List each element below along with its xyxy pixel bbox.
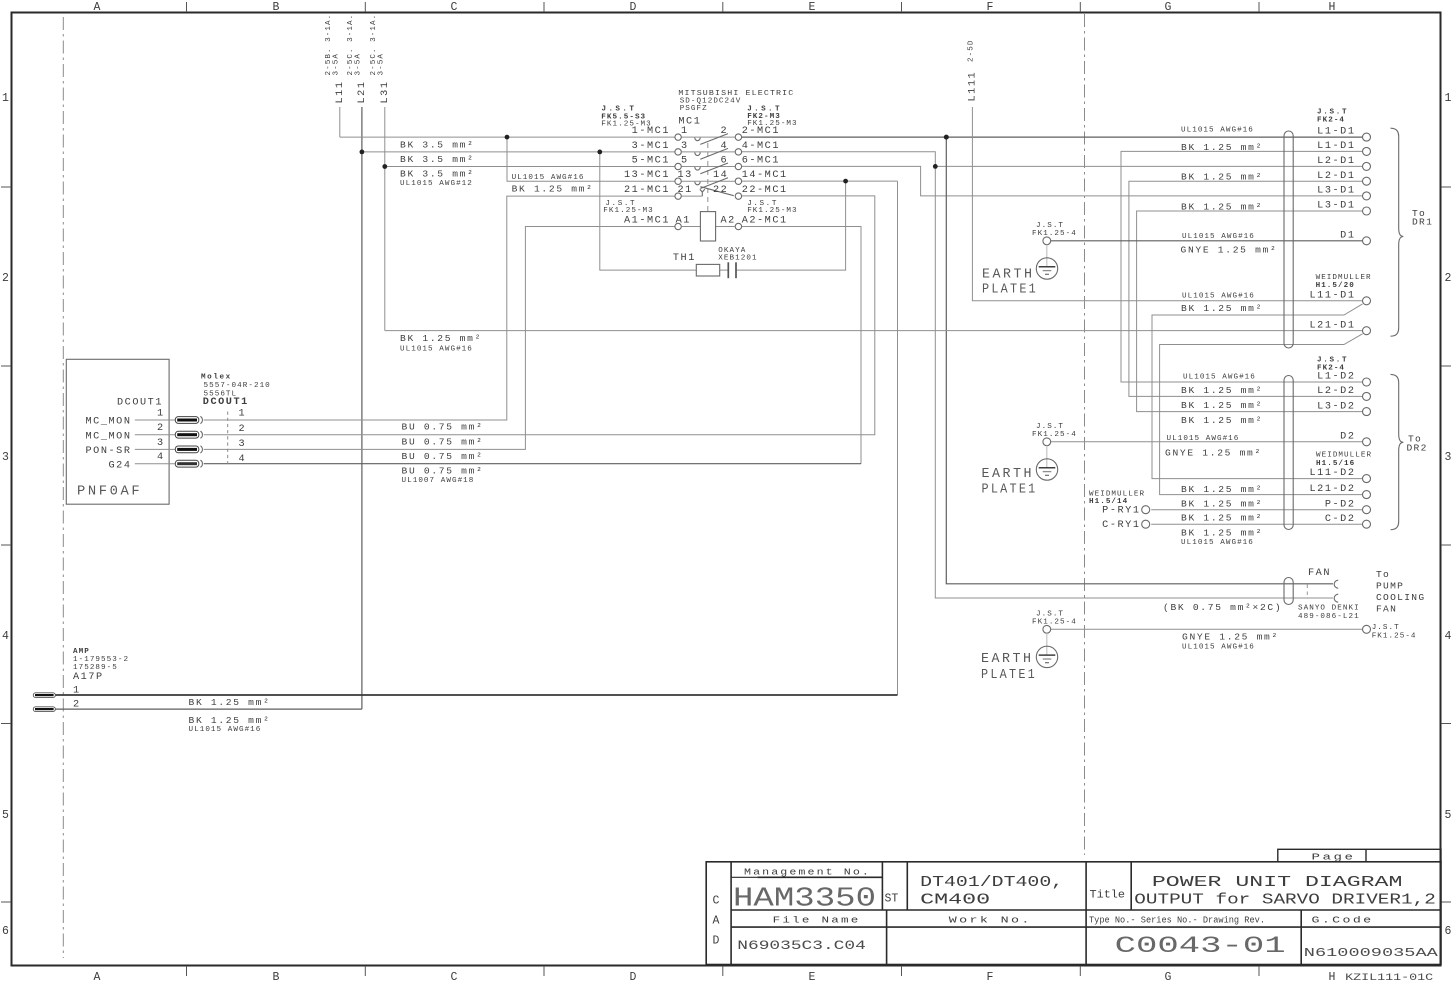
contactor MC1 aux NC 21-22 contact circles xyxy=(675,193,681,199)
svg-text:HAM3350: HAM3350 xyxy=(733,885,876,915)
earth plate1 terminal circle xyxy=(1043,237,1051,245)
svg-text:UL1015 AWG#16: UL1015 AWG#16 xyxy=(189,726,262,734)
svg-text:EARTH: EARTH xyxy=(982,467,1035,482)
earth plate3 name xyxy=(981,652,1037,683)
svg-text:PUMP: PUMP xyxy=(1376,580,1404,591)
contactor MC1 pole 1-2 fixed hook xyxy=(695,138,700,141)
wire 21-MC1 feed and MC_MON pin1 riser xyxy=(204,196,675,420)
terminal FK1.25-4 fan ground xyxy=(1363,625,1371,633)
svg-text:BK 3.5 mm²: BK 3.5 mm² xyxy=(400,140,475,151)
svg-text:BK 1.25 mm²: BK 1.25 mm² xyxy=(1181,303,1263,314)
svg-text:BK 1.25 mm²: BK 1.25 mm² xyxy=(1181,385,1263,396)
svg-text:J.S.T: J.S.T xyxy=(1317,357,1348,365)
wire label GNYE fan ground xyxy=(1182,632,1279,652)
svg-text:5: 5 xyxy=(2,809,9,822)
svg-text:21: 21 xyxy=(678,185,693,196)
terminal brand label coil right xyxy=(747,200,797,215)
wire phase1 BK3.5 to contact 1-MC1 xyxy=(340,136,675,138)
svg-text:File Name: File Name xyxy=(773,914,861,925)
svg-text:UL1015 AWG#16: UL1015 AWG#16 xyxy=(1182,293,1255,301)
svg-text:14-MC1: 14-MC1 xyxy=(742,170,788,181)
wire coil A2 to DCOUT1 pin4 xyxy=(742,227,862,464)
wire coil A1 to DCOUT1 pin3 xyxy=(204,227,675,450)
svg-text:L3-D2: L3-D2 xyxy=(1317,401,1355,412)
capacitor of TH1 snubber xyxy=(727,262,729,278)
thermistor TH1 body xyxy=(696,264,719,276)
contactor MC1 pole 5-6 fixed hook xyxy=(695,167,700,170)
svg-text:L1-D1: L1-D1 xyxy=(1317,141,1355,152)
terminal brand label left J.S.T FK5.5-S3 xyxy=(601,106,651,129)
terminal L2-D1 second xyxy=(1363,177,1371,185)
svg-text:C-D2: C-D2 xyxy=(1325,514,1356,525)
terminal L2-D1 xyxy=(1363,162,1371,170)
svg-text:Page: Page xyxy=(1312,851,1356,862)
DCOUT1 pin2 contact bar xyxy=(175,431,199,438)
svg-text:FAN: FAN xyxy=(1376,603,1397,614)
wire L111 drop to terminal L11-D1 xyxy=(972,107,1363,301)
svg-text:POWER UNIT DIAGRAM: POWER UNIT DIAGRAM xyxy=(1152,875,1403,891)
svg-text:Molex: Molex xyxy=(201,373,232,381)
svg-text:BK 1.25 mm²: BK 1.25 mm² xyxy=(189,715,271,726)
DCOUT1 pin2 internal lead xyxy=(135,434,175,436)
svg-text:4: 4 xyxy=(239,454,247,465)
wire 4-MC1 output corner xyxy=(742,152,936,167)
earth plate2 terminal circle xyxy=(1043,438,1051,446)
svg-text:N610009035AA: N610009035AA xyxy=(1304,947,1438,960)
svg-text:BK 1.25 mm²: BK 1.25 mm² xyxy=(512,184,594,195)
svg-text:22-MC1: 22-MC1 xyxy=(742,185,788,196)
svg-text:PSGFZ: PSGFZ xyxy=(680,105,708,113)
contactor MC1 pole 3-4 fixed hook xyxy=(695,152,700,155)
svg-text:5-MC1: 5-MC1 xyxy=(632,155,670,166)
terminal L3-D2 xyxy=(1363,408,1371,416)
fold dash-dot line left xyxy=(62,17,64,958)
wire C-RY1 to terminal C-D2 xyxy=(1151,523,1363,525)
svg-text:4: 4 xyxy=(1445,630,1452,643)
terminal L1-D1 second xyxy=(1363,147,1371,155)
page box xyxy=(1278,849,1441,862)
svg-text:A2: A2 xyxy=(721,216,736,227)
frame column letters top xyxy=(94,1,1336,14)
svg-text:175289-5: 175289-5 xyxy=(73,664,118,672)
earth plate1 stub xyxy=(1046,245,1048,267)
svg-text:L11-D2: L11-D2 xyxy=(1310,468,1356,479)
svg-text:4: 4 xyxy=(721,141,729,152)
svg-text:P-D2: P-D2 xyxy=(1325,499,1356,510)
svg-text:BK 1.25 mm²: BK 1.25 mm² xyxy=(1181,400,1263,411)
DCOUT1 pin3 internal lead xyxy=(135,448,175,450)
DCOUT1 pin1 socket arc xyxy=(200,416,202,423)
svg-text:L31: L31 xyxy=(380,81,391,104)
svg-text:3: 3 xyxy=(2,451,9,464)
svg-text:6: 6 xyxy=(2,925,9,938)
svg-text:6-MC1: 6-MC1 xyxy=(742,155,780,166)
svg-text:B: B xyxy=(273,971,280,984)
part label MITSUBISHI ELECTRIC contactor xyxy=(678,90,794,113)
net label L111 xyxy=(968,71,979,102)
wire node phase1 drop to FAN upper xyxy=(946,137,1333,584)
wire label L31 bottom run xyxy=(400,333,482,353)
terminal L21-D1 xyxy=(1363,327,1371,335)
contactor MC1 aux 13-14 contact circles xyxy=(675,178,681,184)
svg-text:489-086-L21: 489-086-L21 xyxy=(1298,613,1360,621)
svg-text:UL1015 AWG#16: UL1015 AWG#16 xyxy=(1181,539,1254,547)
svg-text:G: G xyxy=(1165,1,1172,14)
terminal L11-D1 xyxy=(1363,297,1371,305)
DCOUT1 pin4 contact bar xyxy=(175,460,199,467)
svg-text:3-5A: 3-5A xyxy=(355,53,363,75)
svg-text:22: 22 xyxy=(713,185,728,196)
wire L11 drop xyxy=(339,107,341,137)
svg-text:A1-MC1: A1-MC1 xyxy=(624,216,670,227)
svg-text:UL1007 AWG#18: UL1007 AWG#18 xyxy=(402,477,475,485)
svg-text:FAN: FAN xyxy=(1308,568,1331,579)
svg-text:C: C xyxy=(451,971,458,984)
svg-text:2: 2 xyxy=(1445,272,1452,285)
svg-text:H1.5/16: H1.5/16 xyxy=(1316,460,1355,468)
wire label BK C-D2 xyxy=(1181,527,1263,547)
earth plate2 connector label xyxy=(1032,423,1077,439)
svg-text:L2-D1: L2-D1 xyxy=(1317,156,1355,167)
svg-text:J.S.T: J.S.T xyxy=(1036,222,1064,230)
wire 2-MC1 output to terminal L1-D1 xyxy=(742,136,1363,138)
svg-text:FK1.25-M3: FK1.25-M3 xyxy=(747,207,797,215)
svg-text:G: G xyxy=(1165,971,1172,984)
svg-text:EARTH: EARTH xyxy=(982,267,1035,282)
svg-text:5: 5 xyxy=(1445,809,1452,822)
svg-text:5: 5 xyxy=(681,155,689,166)
wire AMP pin2 line xyxy=(55,708,362,710)
wire TH1 resistor to capacitor xyxy=(720,269,729,271)
svg-text:A: A xyxy=(94,1,101,14)
svg-text:XEB1201: XEB1201 xyxy=(718,254,757,262)
svg-text:PNF0AF: PNF0AF xyxy=(77,485,142,500)
frame column ticks top xyxy=(187,2,1260,12)
contactor MC1 coil A1-A2 circles xyxy=(675,223,681,229)
svg-text:BK 1.25 mm²: BK 1.25 mm² xyxy=(189,697,271,708)
ground symbol earth plate1 xyxy=(1036,258,1057,279)
svg-text:DCOUT1: DCOUT1 xyxy=(203,397,249,408)
svg-text:D: D xyxy=(630,1,637,14)
svg-text:BK 1.25 mm²: BK 1.25 mm² xyxy=(400,333,482,344)
part label OKAYA XEB1201 xyxy=(718,247,757,263)
svg-text:BK 1.25 mm²: BK 1.25 mm² xyxy=(1181,201,1263,212)
terminal L3-D1 xyxy=(1363,192,1371,200)
FAN connector lower arc xyxy=(1334,594,1338,602)
machine type DT401/DT400, CM400 xyxy=(920,875,1063,908)
svg-text:L1-D1: L1-D1 xyxy=(1317,127,1355,138)
svg-text:1: 1 xyxy=(239,409,247,420)
svg-text:UL1015 AWG#16: UL1015 AWG#16 xyxy=(1183,374,1256,382)
terminal D1 xyxy=(1363,237,1371,245)
svg-text:BK 1.25 mm²: BK 1.25 mm² xyxy=(1181,513,1263,524)
contactor MC1 aux NC 21-22 blade xyxy=(700,187,733,196)
svg-text:AMP: AMP xyxy=(73,648,90,656)
wire P-RY1 to terminal P-D2 xyxy=(1151,509,1363,511)
svg-text:UL1015 AWG#16: UL1015 AWG#16 xyxy=(512,174,585,182)
terminal brand WEIDMULLER H1.5/16 xyxy=(1316,452,1372,469)
terminal P-RY1 stub circle xyxy=(1142,506,1150,514)
svg-text:WEIDMULLER: WEIDMULLER xyxy=(1316,274,1372,282)
wire 6-MC1 output to terminal L3-D1 xyxy=(742,166,1363,196)
wire L31 run to terminal L21-D1 xyxy=(385,330,1363,332)
wire link L3-D1 to L3-D2 xyxy=(1137,211,1363,412)
terminal C-D2 xyxy=(1363,520,1371,528)
brace To DR2 xyxy=(1391,374,1404,529)
svg-text:4: 4 xyxy=(2,630,9,643)
part label SANYO DENKI fan xyxy=(1298,605,1360,622)
svg-text:BU 0.75 mm²: BU 0.75 mm² xyxy=(402,466,484,477)
terminal L3-D1 second xyxy=(1363,207,1371,215)
wire TH1 left riser from phase2 node xyxy=(600,152,697,270)
svg-text:2: 2 xyxy=(157,423,165,434)
connector label Molex 5557-04R-210 5556TL DCOUT1 xyxy=(201,373,271,408)
svg-text:FK1.25-4: FK1.25-4 xyxy=(1372,633,1417,641)
svg-text:BK 1.25 mm²: BK 1.25 mm² xyxy=(1181,498,1263,509)
svg-text:A2-MC1: A2-MC1 xyxy=(742,216,788,227)
svg-text:13-MC1: 13-MC1 xyxy=(624,170,670,181)
svg-text:E: E xyxy=(809,971,816,984)
svg-text:D: D xyxy=(630,971,637,984)
svg-text:3: 3 xyxy=(681,141,689,152)
svg-text:21-MC1: 21-MC1 xyxy=(624,185,670,196)
contactor MC1 aux 13-14 blade xyxy=(700,178,728,189)
wire phase2 BK3.5 to contact 3-MC1 xyxy=(362,151,675,153)
terminal brand WEIDMULLER H1.5/20 xyxy=(1316,274,1372,290)
terminal brand label coil left xyxy=(603,200,653,215)
svg-text:1: 1 xyxy=(2,92,9,105)
junction node 4-MC1 to L2 bus xyxy=(933,164,938,169)
brace To DR1 xyxy=(1391,128,1404,336)
svg-text:1: 1 xyxy=(73,686,81,697)
terminal C-RY1 stub circle xyxy=(1142,520,1150,528)
svg-text:4-MC1: 4-MC1 xyxy=(742,141,780,152)
frame row ticks left xyxy=(1,187,11,902)
value label L11 circuit refs xyxy=(325,14,341,76)
svg-text:PON-SR: PON-SR xyxy=(86,446,132,457)
wire label 13-MC1 feed xyxy=(512,174,594,195)
cable bundle capsule D1 xyxy=(1284,131,1293,348)
AMP connector pin2 blade xyxy=(33,707,55,712)
svg-text:F: F xyxy=(987,971,994,984)
DCOUT1 pin2 socket arc xyxy=(200,431,202,438)
ground symbol earth plate3 xyxy=(1036,646,1057,667)
junction node phase1 to FAN drop xyxy=(944,135,949,140)
svg-text:FK1.25-4: FK1.25-4 xyxy=(1032,230,1077,238)
svg-text:A1: A1 xyxy=(676,216,691,227)
contactor MC1 pole 5-6 contact circles xyxy=(675,163,681,169)
svg-text:14: 14 xyxy=(713,170,728,181)
svg-text:BK 3.5 mm²: BK 3.5 mm² xyxy=(400,154,475,165)
earth plate1 connector label xyxy=(1032,222,1077,238)
earth plate3 stub xyxy=(1046,633,1048,655)
junction node on phase1 at 13-MC1 feed xyxy=(505,135,510,140)
junction node on phase2 at TH1 riser xyxy=(597,150,602,155)
wire earth plate3 GNYE to J.S.T terminal xyxy=(1051,628,1363,630)
svg-text:DT401/DT400,: DT401/DT400, xyxy=(920,875,1063,891)
terminal brand WEIDMULLER H1.5/14 xyxy=(1089,490,1145,506)
terminal P-D2 xyxy=(1363,506,1371,514)
svg-text:SANYO DENKI: SANYO DENKI xyxy=(1298,605,1360,613)
ground symbol earth plate2 xyxy=(1036,459,1057,480)
node label To DR1 xyxy=(1412,208,1433,228)
frame column letters bottom xyxy=(94,971,1336,984)
svg-text:GNYE 1.25 mm²: GNYE 1.25 mm² xyxy=(1181,244,1278,255)
svg-text:To: To xyxy=(1376,569,1390,580)
contactor MC1 coil wires xyxy=(681,226,700,228)
net label L11 xyxy=(335,81,346,104)
svg-text:C-RY1: C-RY1 xyxy=(1102,520,1140,531)
wire 22-MC1 output to DCOUT1 pin2 xyxy=(204,196,875,435)
svg-text:DR2: DR2 xyxy=(1407,442,1428,453)
svg-text:GNYE 1.25 mm²: GNYE 1.25 mm² xyxy=(1165,447,1262,458)
earth plate2 stub xyxy=(1046,446,1048,468)
svg-text:PLATE1: PLATE1 xyxy=(982,483,1038,498)
svg-text:3: 3 xyxy=(239,439,247,450)
wire label BU pin4 xyxy=(402,466,484,485)
svg-text:E: E xyxy=(809,1,816,14)
svg-text:13: 13 xyxy=(678,170,693,181)
svg-text:D: D xyxy=(713,935,720,948)
svg-text:H1.5/20: H1.5/20 xyxy=(1316,282,1355,290)
svg-text:TH1: TH1 xyxy=(673,253,696,264)
FAN connector upper arc xyxy=(1334,580,1338,588)
fold dash-dot line right xyxy=(1084,14,1086,855)
frame row numbers left xyxy=(2,92,9,938)
DCOUT1 pin4 socket arc xyxy=(200,460,202,467)
terminal L1-D2 xyxy=(1363,378,1371,386)
svg-text:BU 0.75 mm²: BU 0.75 mm² xyxy=(402,436,484,447)
cable bundle capsule FAN xyxy=(1284,578,1293,605)
node label To DR2 xyxy=(1407,434,1428,454)
svg-text:A: A xyxy=(94,971,101,984)
wire link L21-D1 to L21-D2 xyxy=(1160,334,1363,495)
wire label BK AMP pin2 xyxy=(189,715,271,734)
svg-text:GNYE 1.25 mm²: GNYE 1.25 mm² xyxy=(1182,632,1279,643)
svg-text:BK 1.25 mm²: BK 1.25 mm² xyxy=(1181,142,1263,153)
svg-text:WEIDMULLER: WEIDMULLER xyxy=(1316,452,1372,460)
net label L31 xyxy=(380,81,391,104)
svg-text:Work No.: Work No. xyxy=(949,914,1032,925)
svg-text:J.S.T: J.S.T xyxy=(1372,624,1400,632)
svg-text:L3-D1: L3-D1 xyxy=(1317,201,1355,212)
contactor MC1 aux 13-14 fixed hook xyxy=(695,182,700,185)
terminal L2-D2 xyxy=(1363,392,1371,400)
terminal brand label right J.S.T FK2-M3 xyxy=(747,106,797,128)
svg-text:ST: ST xyxy=(885,892,899,905)
svg-text:L11-D1: L11-D1 xyxy=(1310,290,1356,301)
cable bundle capsule D2 xyxy=(1284,376,1293,530)
svg-text:UL1015 AWG#16: UL1015 AWG#16 xyxy=(1167,435,1240,443)
svg-text:WEIDMULLER: WEIDMULLER xyxy=(1089,490,1145,498)
svg-text:UL1015 AWG#16: UL1015 AWG#16 xyxy=(1182,644,1255,652)
svg-text:3-5A: 3-5A xyxy=(333,53,341,75)
DCOUT1 pin1 contact bar xyxy=(175,417,199,424)
terminal L11-D2 xyxy=(1363,475,1371,483)
svg-text:CM400: CM400 xyxy=(920,892,990,908)
contactor MC1 pole 5-6 blade xyxy=(700,163,728,174)
contactor MC1 pole 1-2 contact circles xyxy=(675,134,681,140)
wire L21 drop to AMP pin2 riser xyxy=(361,107,363,709)
svg-text:4: 4 xyxy=(157,452,165,463)
earth plate2 name xyxy=(982,467,1038,498)
svg-text:UL1015 AWG#16: UL1015 AWG#16 xyxy=(1181,127,1254,135)
svg-text:D2: D2 xyxy=(1340,432,1355,443)
svg-text:A17P: A17P xyxy=(73,672,104,683)
connector label AMP A17P xyxy=(73,648,129,683)
wire 14-MC1 output to AMP pin1 xyxy=(742,180,898,182)
svg-text:L11: L11 xyxy=(335,81,346,104)
svg-text:BU 0.75 mm²: BU 0.75 mm² xyxy=(402,422,484,433)
terminal D2 xyxy=(1363,438,1371,446)
svg-text:MC_MON: MC_MON xyxy=(86,431,132,442)
junction node L31 tap xyxy=(382,164,387,169)
svg-text:KZIL111-01C: KZIL111-01C xyxy=(1345,972,1433,984)
DCOUT1 mating connector dashed boundary xyxy=(227,412,229,467)
svg-text:L2-D1: L2-D1 xyxy=(1317,171,1355,182)
svg-text:COOLING: COOLING xyxy=(1376,592,1425,603)
svg-text:FK1.25-M3: FK1.25-M3 xyxy=(603,207,653,215)
svg-text:UL1015 AWG#12: UL1015 AWG#12 xyxy=(400,180,473,188)
junction node L21 tap xyxy=(360,150,365,155)
svg-text:L21-D1: L21-D1 xyxy=(1310,320,1356,331)
svg-text:FK2-4: FK2-4 xyxy=(1317,117,1345,125)
svg-text:2: 2 xyxy=(239,424,247,435)
svg-text:2: 2 xyxy=(721,126,729,137)
svg-text:1: 1 xyxy=(157,409,165,420)
svg-text:J.S.T: J.S.T xyxy=(1317,109,1348,117)
svg-text:UL1015 AWG#16: UL1015 AWG#16 xyxy=(1182,233,1255,241)
svg-text:MC_MON: MC_MON xyxy=(86,417,132,428)
terminal header J.S.T FK2-4 for DR1 xyxy=(1317,109,1348,125)
terminal FK2-4 L1-D1 xyxy=(1363,133,1371,141)
wire earth plate2 GNYE to terminal D2 xyxy=(1051,441,1363,443)
svg-text:OUTPUT for SARVO DRIVER1,2: OUTPUT for SARVO DRIVER1,2 xyxy=(1134,892,1436,908)
DCOUT1 pin1 internal lead xyxy=(135,419,175,421)
svg-text:G.Code: G.Code xyxy=(1312,914,1374,925)
wire phase3 BK3.5 to contact 5-MC1 xyxy=(385,166,675,168)
frame row ticks right xyxy=(1441,187,1451,902)
svg-text:2: 2 xyxy=(2,272,9,285)
svg-text:L111: L111 xyxy=(968,71,979,102)
svg-text:L1-D2: L1-D2 xyxy=(1317,372,1355,383)
svg-text:3: 3 xyxy=(157,438,165,449)
svg-text:PLATE1: PLATE1 xyxy=(982,283,1038,298)
svg-text:BK 1.25 mm²: BK 1.25 mm² xyxy=(1181,527,1263,538)
earth plate1 name xyxy=(982,267,1038,297)
value label L111 circuit ref xyxy=(968,40,976,62)
junction node 14-MC1 to TH1 link xyxy=(843,179,848,184)
svg-text:3: 3 xyxy=(1445,451,1452,464)
svg-text:H: H xyxy=(1329,971,1336,984)
drawing title POWER UNIT DIAGRAM xyxy=(1134,875,1436,908)
svg-text:2-5D: 2-5D xyxy=(968,40,976,62)
svg-text:UL1015 AWG#16: UL1015 AWG#16 xyxy=(400,345,473,353)
wire node L2 drop to FAN lower xyxy=(935,166,1333,598)
svg-text:Management No.: Management No. xyxy=(744,867,871,878)
frame column ticks bottom xyxy=(187,966,1260,976)
svg-text:3-5A: 3-5A xyxy=(378,53,386,75)
wire TH1 right link to 14-MC1 node xyxy=(736,181,846,270)
wire label BK 3.5 phase3 xyxy=(400,169,475,188)
svg-text:(BK 0.75 mm²×2C): (BK 0.75 mm²×2C) xyxy=(1163,602,1282,613)
value label L31 circuit refs xyxy=(370,14,386,76)
title block outer frame xyxy=(706,862,1441,965)
connector DCOUT1 PNF0AF box xyxy=(66,359,169,504)
wire contact row internal leads xyxy=(681,137,735,196)
DCOUT1 pin3 socket arc xyxy=(200,446,202,453)
svg-text:C: C xyxy=(451,1,458,14)
